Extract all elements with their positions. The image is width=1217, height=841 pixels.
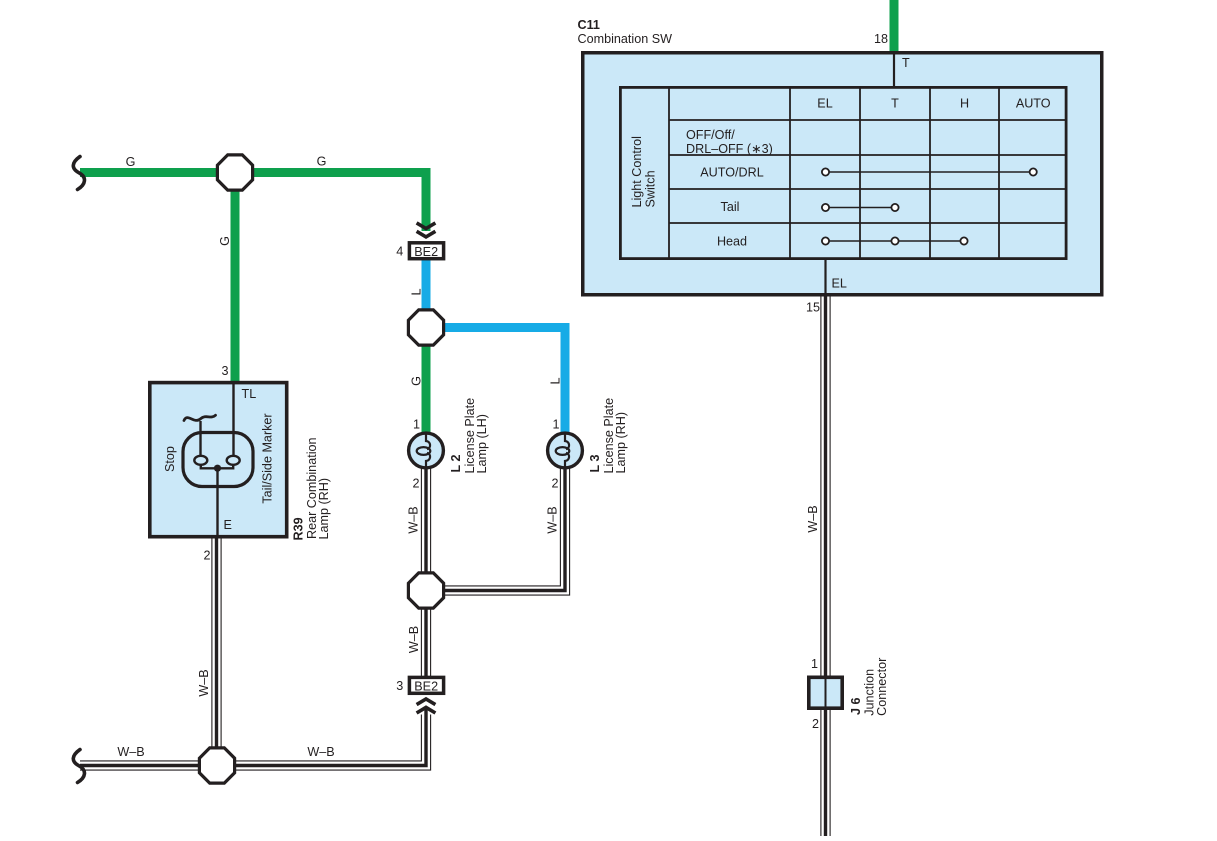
svg-text:E: E [224,518,232,532]
svg-text:J 6: J 6 [849,697,863,715]
svg-text:L: L [409,288,423,295]
svg-text:BE2: BE2 [414,245,438,259]
svg-text:G: G [317,155,327,169]
svg-text:W–B: W–B [407,626,421,653]
svg-text:2: 2 [203,549,210,563]
svg-text:W–B: W–B [406,506,420,533]
svg-text:Lamp (RH): Lamp (RH) [317,478,331,540]
svg-text:G: G [218,236,232,246]
svg-text:EL: EL [817,97,832,111]
svg-text:C11: C11 [578,18,600,32]
svg-text:W–B: W–B [806,505,820,532]
svg-text:W–B: W–B [545,506,559,533]
svg-text:Tail: Tail [721,200,740,214]
svg-text:Tail/Side Marker: Tail/Side Marker [261,413,275,503]
svg-text:2: 2 [412,477,419,491]
svg-text:3: 3 [221,364,228,378]
svg-text:T: T [891,97,899,111]
svg-text:L 2: L 2 [449,455,463,473]
svg-text:H: H [960,97,969,111]
svg-text:W–B: W–B [307,745,334,759]
svg-text:DRL–OFF (∗3): DRL–OFF (∗3) [686,142,773,156]
svg-text:2: 2 [812,717,819,731]
svg-text:Lamp (LH): Lamp (LH) [475,414,489,474]
svg-text:2: 2 [551,477,558,491]
svg-text:Stop: Stop [163,446,177,472]
svg-text:Combination SW: Combination SW [578,32,673,46]
svg-text:1: 1 [413,418,420,432]
svg-text:R39: R39 [292,517,306,540]
svg-text:Switch: Switch [644,170,658,207]
svg-text:3: 3 [396,679,403,693]
svg-text:T: T [902,56,910,70]
svg-text:1: 1 [552,418,559,432]
svg-text:1: 1 [811,657,818,671]
svg-text:G: G [409,376,423,386]
svg-text:Light Control: Light Control [630,136,644,207]
svg-text:4: 4 [396,245,403,259]
svg-text:Head: Head [717,235,747,249]
svg-text:18: 18 [874,32,888,46]
svg-text:L 3: L 3 [588,455,602,473]
svg-text:EL: EL [832,277,847,291]
svg-text:BE2: BE2 [414,680,438,694]
svg-text:AUTO: AUTO [1016,97,1051,111]
svg-text:AUTO/DRL: AUTO/DRL [700,166,763,180]
svg-text:L: L [548,377,562,384]
svg-text:OFF/Off/: OFF/Off/ [686,128,735,142]
svg-text:Connector: Connector [875,658,889,716]
svg-text:G: G [126,155,136,169]
svg-text:Lamp (RH): Lamp (RH) [614,412,628,474]
svg-text:W–B: W–B [117,745,144,759]
svg-text:W–B: W–B [197,669,211,696]
svg-text:TL: TL [242,387,257,401]
svg-text:15: 15 [806,301,820,315]
